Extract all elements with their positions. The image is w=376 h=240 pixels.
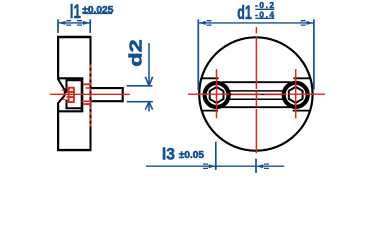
centerline left view [50, 93, 130, 95]
dim d2 extension top [127, 85, 153, 87]
dim l3 arrow left fletch [203, 164, 208, 168]
slot top line [222, 81, 291, 83]
socket box bottom edge [65, 107, 81, 109]
spring left rail [68, 88, 70, 102]
dim d1 line [199, 22, 313, 24]
socket box left edge lower [66, 100, 68, 108]
v-notch vertex face [64, 89, 66, 96]
body left edge upper [57, 36, 59, 79]
dim d2 line lower [148, 102, 150, 111]
shaft end edge [122, 87, 124, 102]
hidden thread edge red dashes [90, 65, 92, 127]
dim l3 arrow left [209, 164, 216, 168]
dim l1 arrow left [58, 21, 65, 25]
vertical centerline front view [255, 27, 257, 153]
slot bottom line [222, 106, 291, 108]
dim l1 arrow left fletch [66, 21, 71, 25]
body left edge lower [57, 103, 59, 151]
dim d1 extension right [313, 19, 315, 89]
dim l1 arrow right fletch [77, 21, 82, 25]
mid flange upper edge [57, 77, 83, 79]
dim l3 line [146, 165, 284, 167]
disc circle d1 [199, 37, 312, 150]
dim l1 extension left [57, 19, 59, 33]
body right edge [90, 36, 92, 151]
lower chord line left [201, 110, 218, 112]
shaft bottom edge [91, 100, 124, 102]
pin lower line [62, 98, 65, 100]
v-notch lower chamfer [58, 95, 65, 103]
thread crest lower [83, 103, 91, 105]
dim l3 arrow right [256, 164, 263, 168]
dim l1 extension right [89, 19, 91, 33]
shaft top edge [91, 87, 124, 89]
dim d1 arrow left [199, 21, 206, 25]
left hole hexagon [210, 87, 224, 103]
pin upper line [62, 89, 65, 91]
dim d1 extension left [197, 19, 199, 90]
spring coil bar 2 [67, 91, 75, 93]
dim d1 arrow right [307, 21, 314, 25]
thread crest upper [83, 83, 91, 85]
v-notch upper chamfer [58, 79, 65, 91]
right hole hexagon [289, 87, 303, 103]
svg-text:d2: d2 [126, 39, 146, 67]
left hole outer ring [205, 83, 229, 107]
dim d2 extension bottom [127, 101, 153, 103]
horizontal centerline front view [188, 93, 325, 95]
upper chord line right [294, 77, 311, 79]
body bottom edge [57, 149, 92, 151]
dim d1 arrow left fletch [207, 21, 212, 25]
svg-text:±0.05: ±0.05 [179, 150, 205, 161]
red details left view [50, 65, 130, 127]
socket wall right [81, 78, 84, 112]
hidden shaft bottom [82, 100, 91, 102]
socket box top edge [65, 79, 81, 81]
spring coil bar 3 [67, 96, 75, 98]
dim d2 line upper [148, 43, 150, 85]
label d1 tolerance upper underline [255, 8, 274, 10]
dim l3 arrow right fletch [264, 164, 269, 168]
upper chord line left [202, 77, 219, 79]
dim d2 arrow top wings [145, 77, 152, 86]
socket box left edge upper [66, 80, 68, 93]
svg-text:l3: l3 [162, 145, 175, 164]
dim d1 arrow right fletch [301, 21, 306, 25]
slot center black line [230, 93, 282, 95]
lower chord line right [293, 110, 311, 112]
spring right rail [73, 88, 75, 102]
label l1 tolerance underline [82, 12, 112, 14]
dim l1 line [59, 22, 90, 24]
dim l3 extension right [255, 159, 257, 173]
label d1 tolerance lower underline [255, 17, 274, 19]
hidden shaft top [86, 87, 91, 89]
spring coil bar 1 [67, 87, 75, 89]
right hole vertical centerline [295, 69, 297, 118]
slot inner bottom line [230, 98, 283, 100]
slot inner top line [230, 90, 283, 92]
svg-text:l1: l1 [70, 0, 81, 22]
spring coil bar 4 [67, 101, 75, 103]
svg-text:d1: d1 [237, 2, 252, 23]
dim l1 arrow right [83, 21, 90, 25]
mid flange lower edge [57, 110, 83, 112]
right hole outer ring [284, 83, 308, 107]
dim d2 arrow bottom wings [145, 102, 152, 110]
svg-text:±0.025: ±0.025 [82, 5, 113, 16]
left hole vertical centerline [216, 69, 218, 118]
dim l3 extension left [215, 142, 217, 170]
body top edge [57, 36, 92, 38]
